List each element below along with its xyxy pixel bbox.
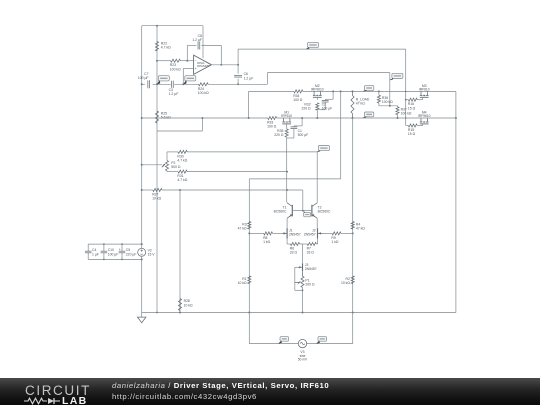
node c5 top [121,243,123,245]
transistor M3 IRF610 (upper output) [420,91,422,95]
resistor R32 [316,103,319,110]
wire left supply rail VL1 upper [141,26,143,249]
flag V3 left [280,337,289,342]
svg-text:100 µF: 100 µF [138,76,149,80]
svg-text:15 Ω: 15 Ω [408,132,416,136]
node wiper-VL1 [141,164,143,166]
svg-text:15 Ω: 15 Ω [408,106,416,110]
node VL3 top [179,189,181,191]
wire op-amp +in [183,67,193,69]
node base-drive-left [141,189,143,191]
wire P1 bottom [302,287,304,312]
svg-text:220 Ω: 220 Ω [301,107,311,111]
ground rail bottom [142,312,456,314]
rail1 horizontal [249,90,294,92]
svg-text:100 µF: 100 µF [108,252,119,256]
svg-text:+: + [119,248,121,252]
wire J1 source [286,239,288,244]
capacitor C4 1uF [87,244,89,251]
capacitor C5 220uF [121,244,123,251]
svg-text:100 kΩ: 100 kΩ [401,112,412,116]
node T1 collector junction [286,189,288,191]
wire rail join left [248,91,250,118]
wire R37 bottom [397,115,399,118]
transistor M2 IRF9610 [313,91,315,95]
wire supply block top [88,243,142,245]
wire op-amp out [212,64,239,66]
node c5 bot [121,259,123,261]
resistor R9 1k [332,232,341,235]
wire R25 dogleg [157,130,202,132]
resistor R35 [285,129,288,137]
wire R36-R37 mid [378,103,380,106]
wire V3 loop [248,313,250,344]
svg-text:100 Ω: 100 Ω [293,98,303,102]
capacitor C3 1.2uF [171,81,173,88]
node out [237,64,239,66]
node IN2 [182,83,184,85]
resistor R33 [268,116,277,119]
wire +V rail top [142,25,203,27]
resistor R7 33 [307,242,316,245]
transistor J2 2N5457 [317,228,319,238]
svg-text:4.7 kΩ: 4.7 kΩ [177,178,187,182]
node P1 join [302,289,304,291]
wire M1 source down [286,137,288,202]
capacitor C2 100uF [332,91,334,99]
resistor R4 47k [351,222,354,230]
node feedback-output [220,64,222,66]
svg-text:47 kΩ: 47 kΩ [356,102,365,106]
svg-text:10 kΩ: 10 kΩ [238,281,247,285]
node out-rail2 [455,117,457,119]
node base [302,210,304,212]
flag rail2 [364,112,373,117]
node R36 top [378,90,380,92]
svg-text:1.2 µF: 1.2 µF [169,92,179,96]
svg-text:220 µF: 220 µF [126,252,137,256]
resistor R8 1k [264,232,273,235]
svg-text:500 Ω: 500 Ω [171,165,181,169]
wire tail [302,244,304,263]
node supply bottom [141,258,143,260]
wire input line [142,83,145,85]
wire left column [248,222,250,313]
svg-text:2N5457: 2N5457 [304,233,316,237]
rail2 horizontal [142,117,268,119]
wire diff feed [340,91,342,178]
potentiometer P1 200 [302,271,304,276]
flag T2C [318,146,329,151]
capacitor C7 100uF [147,80,149,88]
svg-text:100 kΩ: 100 kΩ [170,67,181,71]
node g1 [156,312,158,314]
node g3 [248,312,250,314]
svg-text:33 Ω: 33 Ω [290,251,298,255]
svg-text:10 kΩ: 10 kΩ [184,303,193,307]
svg-text:4.7 kΩ: 4.7 kΩ [177,158,187,162]
wire T2 emitter down [316,218,318,228]
wire input to fb step [238,83,267,85]
node c10 bot [103,259,105,261]
flag FB [392,73,403,78]
resistor R23 [171,59,181,62]
voltage source V3 sine [298,339,306,347]
svg-text:IRF9610: IRF9610 [418,114,431,118]
node gatebus rail2 [405,117,407,119]
resistor R16 gate [408,98,417,101]
svg-text:10 kΩ: 10 kΩ [152,197,161,201]
capacitor C6 1.2uF [234,74,242,76]
resistor R28 [178,299,181,311]
svg-text:33 Ω: 33 Ω [307,251,315,255]
wire rail VL2 [156,26,158,313]
node c10 top [103,243,105,245]
resistor R37 [397,106,399,107]
resistor R6 33 [290,242,299,245]
resistor R34 [294,90,303,93]
ground [141,313,143,318]
svg-text:100 µF: 100 µF [322,107,333,111]
node feedback tap [186,60,188,62]
svg-text:100 Ω: 100 Ω [267,125,277,129]
svg-text:OPA548T: OPA548T [197,64,210,68]
node R37-rail2 [397,117,399,119]
svg-text:47 kΩ: 47 kΩ [356,227,365,231]
wire R32 bottom [316,110,318,118]
node -in [156,60,158,62]
resistor R27 [153,188,162,191]
wire J1 gate [249,232,263,234]
wire feedback up [186,46,188,61]
potentiometer P2 500 [165,161,168,171]
footer text [112,381,329,402]
svg-text:47 kΩ: 47 kΩ [238,227,247,231]
capacitor C10 100uF [103,244,105,251]
wire out branch vertical [237,49,239,74]
wire output right vertical [455,91,457,312]
transistor M4 IRF9610 (lower output) [420,118,422,122]
flag V3 right [318,337,327,342]
node g5 [352,312,354,314]
svg-text:100 kΩ: 100 kΩ [382,100,393,104]
flag rail1 [364,86,373,91]
wire M1 gate lead [286,124,288,129]
svg-text:100 kΩ: 100 kΩ [198,91,209,95]
svg-text:1.2 µF: 1.2 µF [244,76,254,80]
wire left supply rail VL1 lower [141,256,143,312]
node R32-rail2 [316,117,318,119]
wire T1 emitter down [286,218,288,228]
svg-text:2N5457: 2N5457 [305,267,317,271]
resistor R24 [199,83,209,86]
node dogleg [201,117,203,119]
svg-text:1 µF: 1 µF [92,252,99,256]
wire VL3 [179,190,181,313]
node R31-T1C [286,171,288,173]
miniflag base node [304,212,311,216]
svg-text:IRF610: IRF610 [281,114,292,118]
svg-text:500 µF: 500 µF [298,133,309,137]
node rail2 left [141,117,143,119]
capacitor C8 1.2uF [197,42,199,50]
wire feedback down [220,46,222,65]
node g4 [302,312,304,314]
resistor R22 [155,42,158,52]
wire base drive [142,189,153,191]
transistor T2 BC560C [311,205,313,217]
wire feedback top [187,45,196,47]
wire T2 collector up [316,152,318,202]
flag IN2 [185,76,196,81]
wire fb step down [389,73,391,106]
node fb mid [389,105,391,107]
voltage source V2 15V [138,248,146,256]
node J2 gate col [352,232,354,234]
resistor R2 10k [351,276,354,284]
node C1 stub [301,117,303,119]
wire J2 source [317,239,319,244]
resistor R3 47k [248,222,251,230]
wire right column [352,118,354,313]
transistor M1 IRF610 [283,118,285,122]
wire J3 gate loop [295,266,298,268]
node J1 gate col [248,232,250,234]
resistor R1 10k [248,276,251,284]
svg-text:1 kΩ: 1 kΩ [331,240,339,244]
transistor T1 BC560C [291,205,293,217]
flag OUT1 [308,42,319,47]
node RLOAD top [352,90,354,92]
svg-text:5.6 kΩ: 5.6 kΩ [161,116,171,120]
resistor R25 [155,111,158,123]
wire pot bottom [166,170,168,173]
node R16 [405,99,407,101]
transistor J1 2N5457 [286,228,288,238]
wire R15 [406,125,409,127]
svg-text:2N5457: 2N5457 [289,233,301,237]
node C6 bottom [237,83,239,85]
node IN1 [156,83,158,85]
wire supply block bottom [88,258,142,260]
svg-text:IRF610: IRF610 [419,88,430,92]
svg-text:50 mV: 50 mV [298,358,308,362]
svg-text:10 kΩ: 10 kΩ [341,281,350,285]
svg-text:BC560C: BC560C [274,210,287,214]
flag IN1 [158,76,169,81]
svg-text:1.2 µF: 1.2 µF [192,38,202,42]
node diff feed [340,90,342,92]
resistor R31 [178,170,187,173]
node supply top [141,243,143,245]
node gatebus rail1 [405,91,407,93]
resistor R15 gate [408,124,417,127]
resistor RLOAD 47k [352,91,354,95]
node g2 [179,312,181,314]
svg-text:200 Ω: 200 Ω [305,282,315,286]
svg-text:1 kΩ: 1 kΩ [263,240,271,244]
wire gate drive vertical [405,49,407,125]
resistor R36 [377,95,380,103]
node VL2 top [156,25,158,27]
wire R36 stub [378,91,380,95]
wire M2 gate lead [316,97,318,100]
wire R16 [406,99,409,101]
capacitor C1 500uF [301,118,303,126]
svg-text:15 V: 15 V [148,252,156,256]
wire base drop [302,190,304,211]
node C2 stub [332,90,334,92]
svg-text:4.7 kΩ: 4.7 kΩ [161,45,171,49]
wire drive net top [238,48,406,50]
wire J2 gate [323,232,332,234]
wire pot top [166,152,168,161]
svg-text:220 Ω: 220 Ω [274,133,284,137]
node input-left [141,83,143,85]
node rail join [248,117,250,119]
node RLOAD bottom [352,117,354,119]
CircuitLab logo [25,379,105,405]
svg-text:IRF9610: IRF9610 [311,88,324,92]
transistor J3 2N5457 [302,263,304,271]
wire op-amp V+ stub [202,26,204,58]
wire pot wiper [142,164,163,166]
op-amp OPA1 OPA548T [194,55,212,74]
svg-text:BC560C: BC560C [318,210,331,214]
wire op-amp -in [157,60,171,62]
resistor R30 [178,150,187,153]
